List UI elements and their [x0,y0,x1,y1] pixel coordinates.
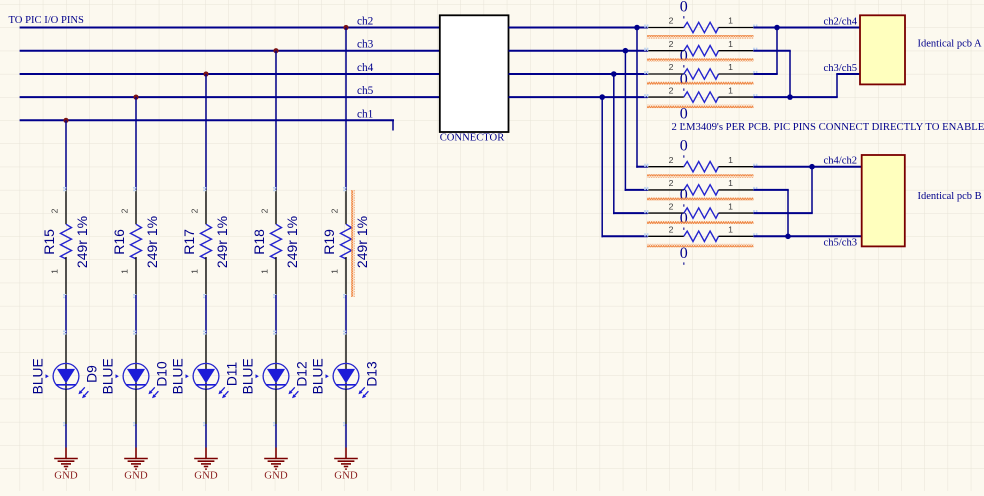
junction ch3/ch5 [787,94,793,100]
text TO PIC I/O PINS [9,15,85,26]
LED D10 BLUE [100,331,169,427]
LED D9 BLUE [30,331,99,427]
svg-text:D9: D9 [85,365,100,383]
resistor R15 249r 1% [41,187,90,298]
wire ch2 (connector to resistor) [509,27,649,29]
resistor 0 ohm (pcb A bank row 2) [644,39,757,68]
junction node ch3 at column 4 [273,48,278,53]
note 2 LM3409s PER PCB [672,121,984,133]
svg-text:BLUE: BLUE [240,358,255,394]
svg-text:TO PIC I/O PINS: TO PIC I/O PINS [9,15,85,26]
svg-text:ch3: ch3 [357,39,374,51]
wire ch3 row down to ch5 row [753,51,790,97]
svg-text:1: 1 [728,16,733,26]
text Identical pcb A [918,39,983,50]
wire LED to ground [345,389,347,448]
wire vertical ch3 to R18 [275,51,277,190]
svg-text:1: 1 [728,225,733,235]
svg-text:ch3/ch5: ch3/ch5 [824,63,858,74]
text Identical pcb B [918,191,982,202]
wire LED to ground [135,389,137,448]
wire vertical ch4 to R17 [205,74,207,190]
resistor R18 249r 1% [251,187,300,298]
resistor 0 ohm (pcb A bank row 1) [644,0,757,39]
resistor 0 ohm (pcb B bank row 1) [644,138,757,178]
svg-text:0: 0 [680,0,688,16]
svg-text:2: 2 [190,208,200,213]
wire ch4/ch2 to pcb B [753,166,861,168]
resistor 0 ohm (pcb A bank row 3) [644,62,757,91]
svg-text:0: 0 [680,210,688,227]
svg-text:1: 1 [728,201,733,211]
svg-text:2: 2 [669,62,674,72]
svg-text:1: 1 [260,269,270,274]
wire resistor to LED [135,295,137,334]
svg-text:1: 1 [120,269,130,274]
svg-text:249r 1%: 249r 1% [144,216,160,268]
net label ch1 [357,108,373,120]
svg-text:249r 1%: 249r 1% [284,216,300,268]
svg-text:R18: R18 [251,229,267,255]
wire LED to ground [275,389,277,448]
wire ch2 (PIC side) [20,27,440,29]
svg-text:2: 2 [669,178,674,188]
wire ch2 drop to pcb B bank [636,28,648,168]
wire ch4 (connector to resistor) [509,73,649,75]
wire LED to ground [65,389,67,448]
svg-text:ch1: ch1 [357,108,373,120]
junction ch5/ch3 [785,234,791,240]
wire vertical ch1 to R15 [65,120,67,190]
net label ch2 [357,16,374,28]
svg-text:D13: D13 [365,361,380,387]
resistor 0 ohm (pcb B bank row 3) [644,201,757,230]
svg-text:GND: GND [54,469,78,481]
svg-text:1: 1 [728,178,733,188]
svg-text:CONNECTOR: CONNECTOR [440,133,505,144]
svg-text:1: 1 [728,39,733,49]
block Identical pcb A [860,15,905,84]
svg-text:0: 0 [680,187,688,204]
svg-text:ch5: ch5 [357,85,374,97]
svg-text:GND: GND [334,469,358,481]
svg-text:2: 2 [120,208,130,213]
junction ch5 right [599,94,605,100]
wire resistor to LED [275,295,277,334]
wire pcb B row2 down to row4 [753,190,788,236]
wire ch4 row up to ch2 row [753,28,777,75]
ground GND [264,448,288,482]
svg-text:2: 2 [330,208,340,213]
net label ch5 [357,85,374,97]
svg-text:1: 1 [50,269,60,274]
junction node ch5 at column 2 [133,95,138,100]
svg-text:ch4: ch4 [357,62,374,74]
svg-text:D11: D11 [225,362,240,386]
wire ch5/ch3 to pcb B [753,235,861,237]
ground GND [334,448,358,482]
wire ch3/ch5 to pcb A [753,74,860,97]
svg-text:BLUE: BLUE [310,358,325,394]
svg-text:0: 0 [680,138,688,155]
resistor R19 249r 1% [321,187,370,298]
svg-text:BLUE: BLUE [170,358,185,394]
svg-text:ch2: ch2 [357,16,374,28]
svg-text:0: 0 [680,245,688,262]
wire ch5 (PIC side) [20,96,440,98]
connector CONNECTOR [440,15,509,143]
svg-text:0: 0 [680,48,688,65]
wire ch5 drop to pcb B bank [601,97,648,237]
svg-text:Identical pcb A: Identical pcb A [918,39,983,50]
block Identical pcb B [862,155,905,246]
svg-text:2: 2 [260,208,270,213]
wire pcb B row3 up to row1 [753,167,812,213]
wire ch5 (connector to resistor) [509,96,649,98]
resistor R16 249r 1% [111,187,160,298]
wire ch3 (PIC side) [20,50,440,52]
svg-text:ch2/ch4: ch2/ch4 [824,16,858,27]
junction node ch4 at column 3 [203,71,208,76]
wire LED to ground [205,389,207,448]
wire ch3 (connector to resistor) [509,50,649,52]
net label ch4/ch2 [824,156,858,167]
svg-text:1: 1 [728,85,733,95]
svg-text:1: 1 [728,62,733,72]
svg-text:1: 1 [728,155,733,165]
net label ch5/ch3 [824,238,858,249]
svg-text:1: 1 [330,269,340,274]
net label ch2/ch4 [824,16,858,27]
svg-text:1: 1 [190,269,200,274]
svg-text:GND: GND [124,469,148,481]
svg-text:249r 1%: 249r 1% [74,216,90,268]
svg-text:ch4/ch2: ch4/ch2 [824,156,858,167]
svg-text:2: 2 [50,208,60,213]
wire resistor to LED [345,295,347,334]
LED D12 BLUE [240,331,309,427]
svg-text:R19: R19 [321,229,337,255]
ground GND [54,448,78,482]
wire ch4 drop to pcb B bank [613,74,648,214]
wire ch2/ch4 to pcb A [753,27,860,29]
junction node ch1 at column 1 [63,118,68,123]
junction ch3 right [623,48,629,54]
wire ch1 (ends with stub) [20,120,394,130]
wire ch4 (PIC side) [20,73,440,75]
svg-text:2: 2 [669,16,674,26]
wire ch3 drop to pcb B bank [625,51,648,191]
junction ch2 right [634,25,640,31]
svg-text:2: 2 [669,85,674,95]
resistor 0 ohm (pcb A bank row 4) [644,85,757,125]
junction ch4/ch2 [809,164,815,170]
svg-text:D12: D12 [295,361,310,386]
svg-text:GND: GND [264,469,288,481]
resistor 0 ohm (pcb B bank row 2) [644,178,757,207]
svg-text:R17: R17 [181,229,197,255]
ground GND [124,448,148,482]
junction node ch2 at column 5 [343,25,348,30]
svg-text:249r 1%: 249r 1% [354,216,370,268]
LED D13 BLUE [310,331,379,427]
LED D11 BLUE [170,331,239,427]
svg-text:2 LM3409's PER PCB. PIC PINS C: 2 LM3409's PER PCB. PIC PINS CONNECT DIR… [672,121,984,133]
svg-text:D10: D10 [155,361,170,387]
svg-text:ch5/ch3: ch5/ch3 [824,238,858,249]
resistor R17 249r 1% [181,187,230,298]
junction ch2/ch4 [774,25,780,31]
svg-text:2: 2 [669,39,674,49]
svg-text:2: 2 [669,201,674,211]
compile marker squiggle at R19 [351,190,354,297]
svg-text:BLUE: BLUE [100,358,115,394]
wire vertical ch5 to R16 [135,97,137,190]
ground GND [194,448,218,482]
svg-text:0: 0 [680,71,688,88]
svg-text:2: 2 [669,225,674,235]
resistor 0 ohm (pcb B bank row 4) [644,225,757,265]
svg-text:249r 1%: 249r 1% [214,216,230,268]
wire vertical ch2 to R19 [345,28,347,191]
svg-text:R15: R15 [41,229,57,255]
wire resistor to LED [65,295,67,334]
junction ch4 right [611,71,617,77]
svg-text:2: 2 [669,155,674,165]
svg-text:Identical pcb B: Identical pcb B [918,191,982,202]
net label ch4 [357,62,374,74]
net label ch3/ch5 [824,63,858,74]
net label ch3 [357,39,374,51]
svg-text:BLUE: BLUE [30,358,45,394]
svg-text:GND: GND [194,469,218,481]
wire resistor to LED [205,295,207,334]
svg-text:R16: R16 [111,229,127,255]
